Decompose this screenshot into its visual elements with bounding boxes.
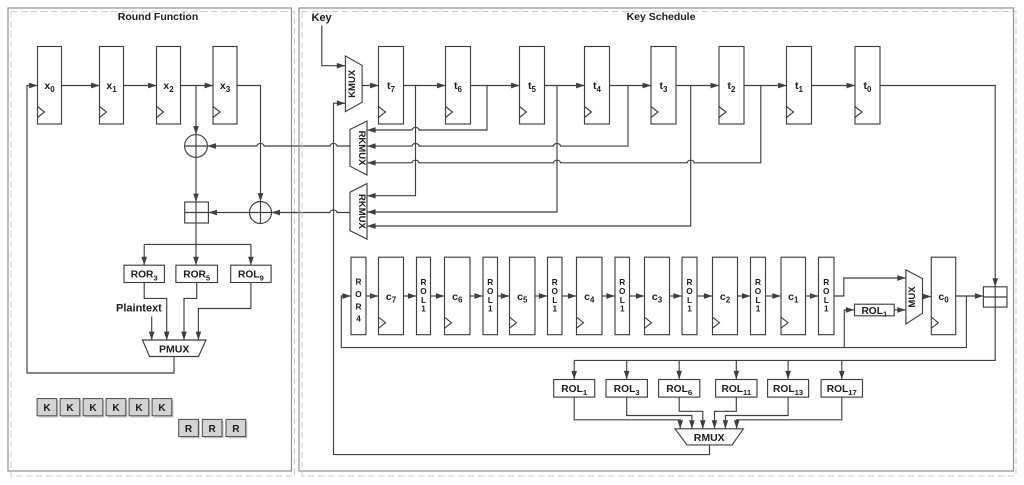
register x1 xyxy=(100,47,124,125)
wire tap into ROL box 6 xyxy=(841,360,843,379)
left panel border (Round Function) xyxy=(8,8,292,471)
mux MUX xyxy=(906,270,923,324)
register c4 xyxy=(577,257,603,335)
wire into R1a xyxy=(404,295,417,297)
wire t1 to t0 xyxy=(812,85,856,87)
register t3 xyxy=(651,47,676,125)
wire into R1d xyxy=(602,295,615,297)
svg-text:R: R xyxy=(209,424,217,435)
right panel border (Key Schedule) xyxy=(299,8,1014,471)
wire ROR3 to PMUX xyxy=(144,283,167,341)
wire into R1g xyxy=(806,295,819,297)
wire RMUX feedback to KMUX xyxy=(334,103,710,454)
register c7 xyxy=(379,257,404,335)
box ROR3 xyxy=(124,265,164,282)
wire c0 to key adder xyxy=(956,295,984,297)
box ROL1 (horizontal) xyxy=(855,304,895,318)
register t5 xyxy=(520,47,545,125)
key state cell K2 xyxy=(60,399,81,418)
wire tap into ROL box 3 xyxy=(678,360,680,379)
wire feedback loop PMUX to x0 xyxy=(27,86,174,374)
wire into R1c xyxy=(535,295,547,297)
key state cell K5 xyxy=(129,399,150,418)
mux PMUX xyxy=(143,340,207,357)
register c6 xyxy=(445,257,471,335)
box ROL1 shifter R1c (vertical) xyxy=(548,257,563,335)
wire t5 tap to RKMUX2 input2 xyxy=(367,86,557,213)
mux RKMUX2 xyxy=(350,184,367,240)
wire into c5 xyxy=(498,295,510,297)
wire round key RKMUX1 to XOR1 xyxy=(208,143,351,146)
modular adder (squared plus, left panel) xyxy=(185,202,209,223)
wire x2 tap to XOR1 xyxy=(195,86,197,135)
key state cell K4 xyxy=(106,399,127,418)
box ROL17 xyxy=(821,380,862,398)
box ROL1 shifter R1f (vertical) xyxy=(751,257,766,335)
wire ROL1g to MUX input1 xyxy=(834,278,906,296)
wire x0 to x1 xyxy=(62,85,100,87)
register c3 xyxy=(645,257,670,335)
wire ROL17 to RMUX xyxy=(737,397,842,429)
wire ROL1 to RMUX xyxy=(574,397,680,429)
svg-text:R: R xyxy=(232,424,240,435)
svg-text:K: K xyxy=(43,403,51,414)
box ROL1 shifter R1d (vertical) xyxy=(615,257,630,335)
register x2 xyxy=(157,47,181,125)
register t2 xyxy=(719,47,744,125)
wire t7 tap to RKMUX2 input1 xyxy=(367,86,415,196)
wire round key RKMUX2 to XOR2 xyxy=(272,210,350,213)
svg-text:Key Schedule: Key Schedule xyxy=(627,11,696,23)
wire into c3 xyxy=(630,295,645,297)
key state cell K1 xyxy=(37,399,58,418)
register t7 xyxy=(379,47,404,125)
left panel shadow xyxy=(11,12,295,477)
box ROR4 (vertical) xyxy=(351,257,366,335)
wire adder to ROR5 xyxy=(195,223,197,265)
wire into R1f xyxy=(738,295,751,297)
wire ROR4 to c7 xyxy=(366,295,378,297)
box ROL1 xyxy=(554,380,595,398)
svg-text:Key: Key xyxy=(312,12,333,24)
wire ROL9 to PMUX xyxy=(198,283,251,341)
svg-text:Plaintext: Plaintext xyxy=(116,303,162,315)
register t1 xyxy=(787,47,812,125)
wire into R1e xyxy=(670,295,682,297)
svg-text:RKMUX: RKMUX xyxy=(356,131,367,166)
wire t6 to t5 xyxy=(471,85,520,87)
wire into c4 xyxy=(562,295,576,297)
wire KMUX to t7 xyxy=(362,85,378,87)
register c1 xyxy=(781,257,806,335)
modular adder (squared plus, key schedule) xyxy=(983,287,1007,307)
round state cell R1 xyxy=(179,419,200,438)
key state cell K6 xyxy=(152,399,173,418)
wire ROL3 to RMUX xyxy=(627,397,692,429)
box ROL1 shifter R1e (vertical) xyxy=(682,257,697,335)
svg-text:RMUX: RMUX xyxy=(694,432,725,444)
wire branch to ROL9 xyxy=(250,244,252,265)
wire x3 tap to XOR2 xyxy=(238,86,261,202)
register t0 xyxy=(855,47,880,125)
wire t2 tap to RKMUX1 input3 xyxy=(367,86,761,163)
xor gate XOR2 xyxy=(250,202,272,224)
wire XOR1 to modular adder xyxy=(195,157,197,202)
wire tap into ROL box 2 xyxy=(626,360,628,379)
svg-text:R: R xyxy=(185,424,193,435)
wire t3 tap to RKMUX2 input3 xyxy=(367,86,691,227)
wire x1 to x2 xyxy=(124,85,157,87)
key state cell K3 xyxy=(83,399,104,418)
round state cell R2 xyxy=(202,419,223,438)
svg-text:K: K xyxy=(158,403,166,414)
xor gate XOR1 xyxy=(185,135,208,158)
wire into c6 xyxy=(431,295,445,297)
wire loop tap to ROL1 box xyxy=(844,310,854,348)
mux RKMUX1 xyxy=(350,121,367,175)
svg-text:RKMUX: RKMUX xyxy=(356,194,367,229)
wire ROL11 to RMUX xyxy=(715,397,737,429)
round state cell R3 xyxy=(226,419,247,438)
wire branch to ROR3 xyxy=(143,244,145,265)
register c5 xyxy=(510,257,536,335)
wire t0 output to key adder xyxy=(880,86,995,287)
svg-text:Round Function: Round Function xyxy=(118,11,198,23)
svg-text:K: K xyxy=(89,403,97,414)
svg-text:K: K xyxy=(135,403,143,414)
right panel shadow xyxy=(302,12,1016,477)
svg-text:KMUX: KMUX xyxy=(347,69,358,98)
wire into R1b xyxy=(470,295,483,297)
svg-text:PMUX: PMUX xyxy=(159,344,189,356)
wire into c1 xyxy=(766,295,781,297)
box ROL1 shifter R1a (vertical) xyxy=(417,257,431,335)
wire tap into ROL box 5 xyxy=(787,360,789,379)
register t4 xyxy=(585,47,610,125)
wire ROL1 box to MUX input2 xyxy=(894,309,906,311)
box ROR5 xyxy=(176,265,218,282)
wire tap into ROL box 1 xyxy=(573,360,575,379)
wire Key to KMUX xyxy=(322,26,345,66)
wire t7 to t6 xyxy=(404,85,446,87)
wire t3 to t2 xyxy=(676,85,719,87)
wire t5 to t4 xyxy=(545,85,585,87)
box ROL11 xyxy=(716,380,757,398)
mux KMUX xyxy=(345,56,362,112)
register t6 xyxy=(446,47,471,125)
wire x2 to x3 xyxy=(181,85,214,87)
box ROL1 shifter R1b (vertical) xyxy=(483,257,498,335)
wire distribution to ROR3 ROL9 xyxy=(144,243,251,245)
wire ROL13 to RMUX xyxy=(725,397,788,429)
box ROL3 xyxy=(606,380,647,398)
register c2 xyxy=(713,257,738,335)
box ROL13 xyxy=(768,380,809,398)
box ROL6 xyxy=(659,380,700,398)
wire into c2 xyxy=(697,295,712,297)
box ROL9 xyxy=(231,265,271,282)
mux RMUX xyxy=(675,429,743,445)
wire ROR5 to PMUX xyxy=(184,283,197,341)
register x0 xyxy=(38,47,62,125)
svg-text:K: K xyxy=(112,403,120,414)
wire t4 to t3 xyxy=(610,85,652,87)
register c0 xyxy=(931,257,955,335)
box ROL1 shifter R1g (vertical) xyxy=(819,257,835,335)
wire tap into ROL box 4 xyxy=(735,360,737,379)
wire t4 tap to RKMUX1 input2 xyxy=(367,86,628,147)
wire XOR2 to modular adder xyxy=(209,212,250,214)
svg-text:K: K xyxy=(66,403,74,414)
wire t6 tap to RKMUX1 input1 xyxy=(367,86,487,131)
wire MUX to c0 xyxy=(923,296,932,298)
wire key adder to rotation taps xyxy=(574,307,995,360)
wire ROL6 to RMUX xyxy=(679,397,703,429)
svg-text:MUX: MUX xyxy=(907,286,918,308)
wire constant loop into ROR4 xyxy=(341,296,966,348)
register x3 xyxy=(213,47,237,125)
wire Plaintext to PMUX xyxy=(151,317,153,341)
wire t2 to t1 xyxy=(744,85,787,87)
